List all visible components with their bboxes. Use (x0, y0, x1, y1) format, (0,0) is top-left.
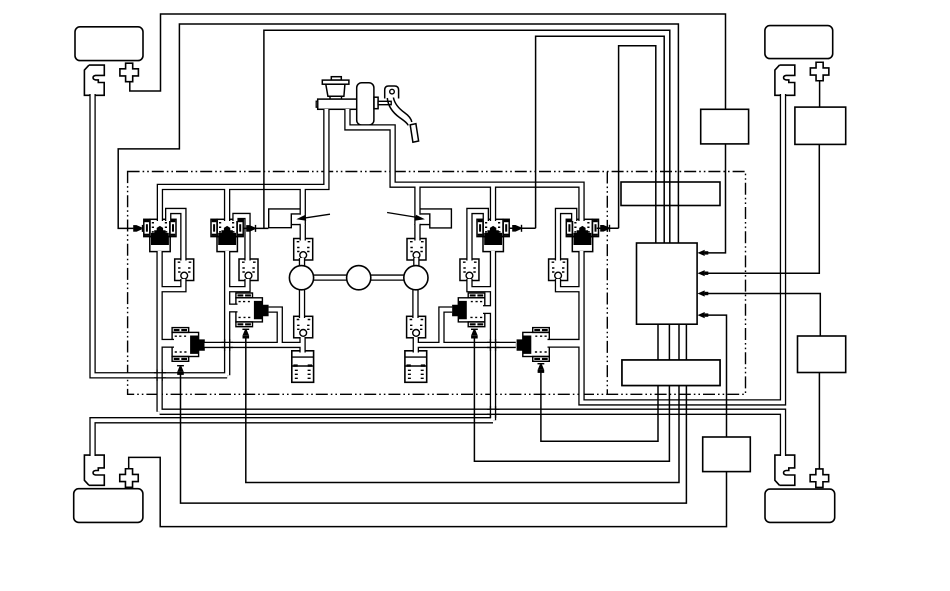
pump motor circle center (347, 266, 371, 290)
ECU input arrow 2 (698, 270, 709, 276)
caliper front-right (775, 65, 795, 95)
sensor interface box front-left (701, 109, 749, 144)
wheel cylinder box rear-right (765, 489, 835, 522)
hydraulic pipe network: bores (white cores) (93, 94, 783, 456)
pipe: circle3 to lower check (412, 288, 418, 318)
right reservoir funnel (416, 215, 424, 224)
pipe: C4 to V4 stem (558, 279, 582, 289)
sensor cross rear-left (120, 469, 139, 488)
brake pedal arm (387, 98, 412, 126)
reservoir body (326, 84, 345, 96)
check valve upper-right (407, 239, 426, 261)
pipe: pump circle left to lower check (299, 288, 305, 318)
drive arrow at V4 (600, 225, 610, 232)
bypass check valve C4 (549, 259, 568, 281)
wire: front-right sensor to interface box (819, 80, 821, 107)
wire: interface box to ECU input 2 (703, 144, 820, 273)
check valve lower-right (407, 316, 426, 338)
accumulator right (405, 351, 427, 383)
dump valve D4 (for V4 circuit) (517, 328, 550, 362)
pipe: V3 bypass hook (469, 211, 485, 261)
pipe: C2 to V2 stem (227, 279, 247, 289)
wire: interface box to ECU input 3 (703, 294, 821, 337)
wire: ECU to solenoid V1 (118, 24, 678, 243)
pipe: lower check to accumulator left (299, 337, 305, 353)
sensor interface box rear-right (798, 336, 846, 373)
crossing V3 stem x rear-right line (487, 406, 500, 418)
pipe: V3 stem to dump valve D3 (483, 305, 495, 314)
ECU input arrow 1 (698, 250, 709, 256)
pipe: V2 stem (224, 251, 230, 375)
pipe: right funnel drop (414, 185, 420, 225)
hydraulic unit dash-dot boundary (128, 172, 746, 395)
crossing V3 stem x return gallery (487, 339, 500, 351)
pipe: return gallery right (415, 342, 516, 348)
sensor cross front-left (120, 63, 139, 82)
wire: rear-left sensor to interface box (129, 457, 727, 526)
pipe: C3 to V3 stem (469, 279, 493, 289)
pipe: V1 drop + left manifold + MC primary line (160, 109, 327, 221)
pipe: V1 bypass hook (168, 211, 183, 261)
drive arrow at V2 (246, 225, 256, 232)
pipe: circle2 to circle3 (368, 274, 408, 280)
pump element circle right (404, 266, 428, 290)
inlet solenoid valve V4 body (566, 219, 598, 251)
pipe: lower check to accumulator right (413, 337, 419, 353)
pipe: V3 stem (490, 251, 496, 420)
flow arrow into left funnel (296, 214, 330, 221)
pipe: V4 stem + front-right brake line (582, 94, 784, 402)
pipe crossing patches (154, 339, 500, 418)
sensor cross front-right (810, 62, 829, 81)
pipe: upper check to pump circle left (299, 258, 305, 268)
pump element circle left (289, 266, 313, 290)
booster pushrod housing (374, 97, 378, 109)
crossing V1 stem x front-left line (154, 370, 166, 382)
caliper front-left (84, 65, 104, 95)
pipe: return gallery left (205, 342, 304, 348)
wire: ECU to solenoid V2 (243, 30, 670, 243)
bypass check valve C2 (239, 259, 258, 281)
pipe: D3 output to return gallery (441, 310, 452, 346)
pipe: right funnel to upper check (414, 224, 420, 241)
wire: front-left sensor to interface box (130, 14, 726, 109)
wire: ECU to dump valve D2 (246, 324, 679, 482)
sensor interface box front-right (795, 107, 846, 144)
dump valve D2 (for V2 circuit) (236, 293, 269, 327)
master cylinder end cap (316, 101, 318, 107)
bypass check valve C1 (175, 259, 194, 281)
drive arrow at V3 (512, 225, 522, 232)
pipe: upper check to circle3 (413, 258, 419, 268)
wheel cylinder box front-left (75, 27, 143, 61)
drive arrow at V1 (133, 225, 143, 232)
pipe: V3 drop (490, 185, 496, 221)
wire: rear-right sensor to interface box (818, 373, 820, 470)
pedal pivot bracket (385, 86, 399, 99)
pipe: rear-right brake line (160, 412, 783, 456)
dump valve D1 (for V1 circuit) (172, 328, 205, 362)
ECU box (637, 243, 698, 324)
relay block lower (622, 360, 720, 386)
wire: interface box to ECU input 4 (703, 315, 727, 437)
reservoir cap flange (322, 80, 349, 84)
pipe: V2 bypass hook (236, 216, 248, 261)
pipe: V2 drop (224, 187, 230, 221)
relay block lower (covers wires) (622, 360, 720, 386)
ECU input arrow 3 (698, 290, 709, 296)
pipe: C1 to V1 stem (160, 279, 184, 289)
wire: interface box to ECU input 1 (703, 144, 726, 253)
drive arrow at D3 (471, 329, 478, 339)
accumulator left (292, 351, 314, 383)
wire: ECU to dump valve D4 (541, 324, 658, 441)
wire: ECU to dump valve D3 (474, 324, 669, 461)
pipe: V1 stem (156, 251, 162, 412)
drive arrow at D2 (242, 329, 249, 339)
drive arrow at D4 (538, 363, 545, 373)
caliper rear-left (84, 455, 104, 485)
wheel cylinder box rear-left (74, 489, 143, 523)
master cylinder reservoir cap (331, 77, 341, 80)
flow arrow into right funnel (387, 213, 425, 221)
inlet solenoid valve V2 body (211, 219, 243, 251)
pipe: rear-left brake line (93, 420, 493, 456)
pipe: V2 stem to dump valve D2 (226, 304, 238, 313)
relay block upper (621, 182, 720, 206)
pedal pivot hole (390, 89, 395, 94)
wheel cylinder box front-right (765, 26, 833, 59)
drive arrow at D1 (177, 365, 184, 375)
ECU input arrow 4 (698, 312, 709, 318)
pipe: left funnel to upper check valve (300, 224, 306, 241)
master cylinder body (318, 99, 362, 109)
pushrod (378, 101, 391, 104)
wire: ECU to dump valve D1 (181, 324, 687, 503)
brake booster (357, 83, 374, 125)
pipe: left funnel drop (300, 187, 306, 225)
wire: ECU to solenoid V4 (597, 46, 656, 243)
dump valve D3 (for V3 circuit) (452, 293, 485, 327)
sensor interface box rear-left (703, 437, 751, 472)
pipe: front-left brake line (93, 94, 228, 375)
pipe: V1 stem to dump valve D1 (158, 339, 174, 348)
left reservoir funnel (296, 215, 304, 224)
pipe: circle1 to circle2 (310, 274, 350, 280)
internal dash-dot divider (606, 172, 608, 395)
pipe: MC secondary line + right manifold + V4 drop (347, 109, 581, 221)
reservoir neck (330, 96, 342, 99)
inlet solenoid valve V3 body (477, 219, 509, 251)
hydraulic pipe network: outer walls (93, 94, 783, 456)
pipe: V4 stem to dump valve D4 (548, 339, 584, 348)
bypass check valve C3 (460, 259, 479, 281)
pipe: V4 bypass hook (558, 211, 574, 261)
sensor cross rear-right (810, 469, 829, 488)
wire: ECU to solenoid V3 (509, 36, 664, 243)
check valve lower-left (294, 316, 313, 338)
pipe: D2 output to return gallery (269, 310, 280, 346)
check valve upper-left (294, 239, 313, 261)
crossing V2 stem x return gallery (222, 339, 234, 351)
caliper rear-right (775, 455, 795, 485)
inlet solenoid valve V1 body (144, 219, 176, 251)
brake pedal pad (410, 124, 418, 143)
